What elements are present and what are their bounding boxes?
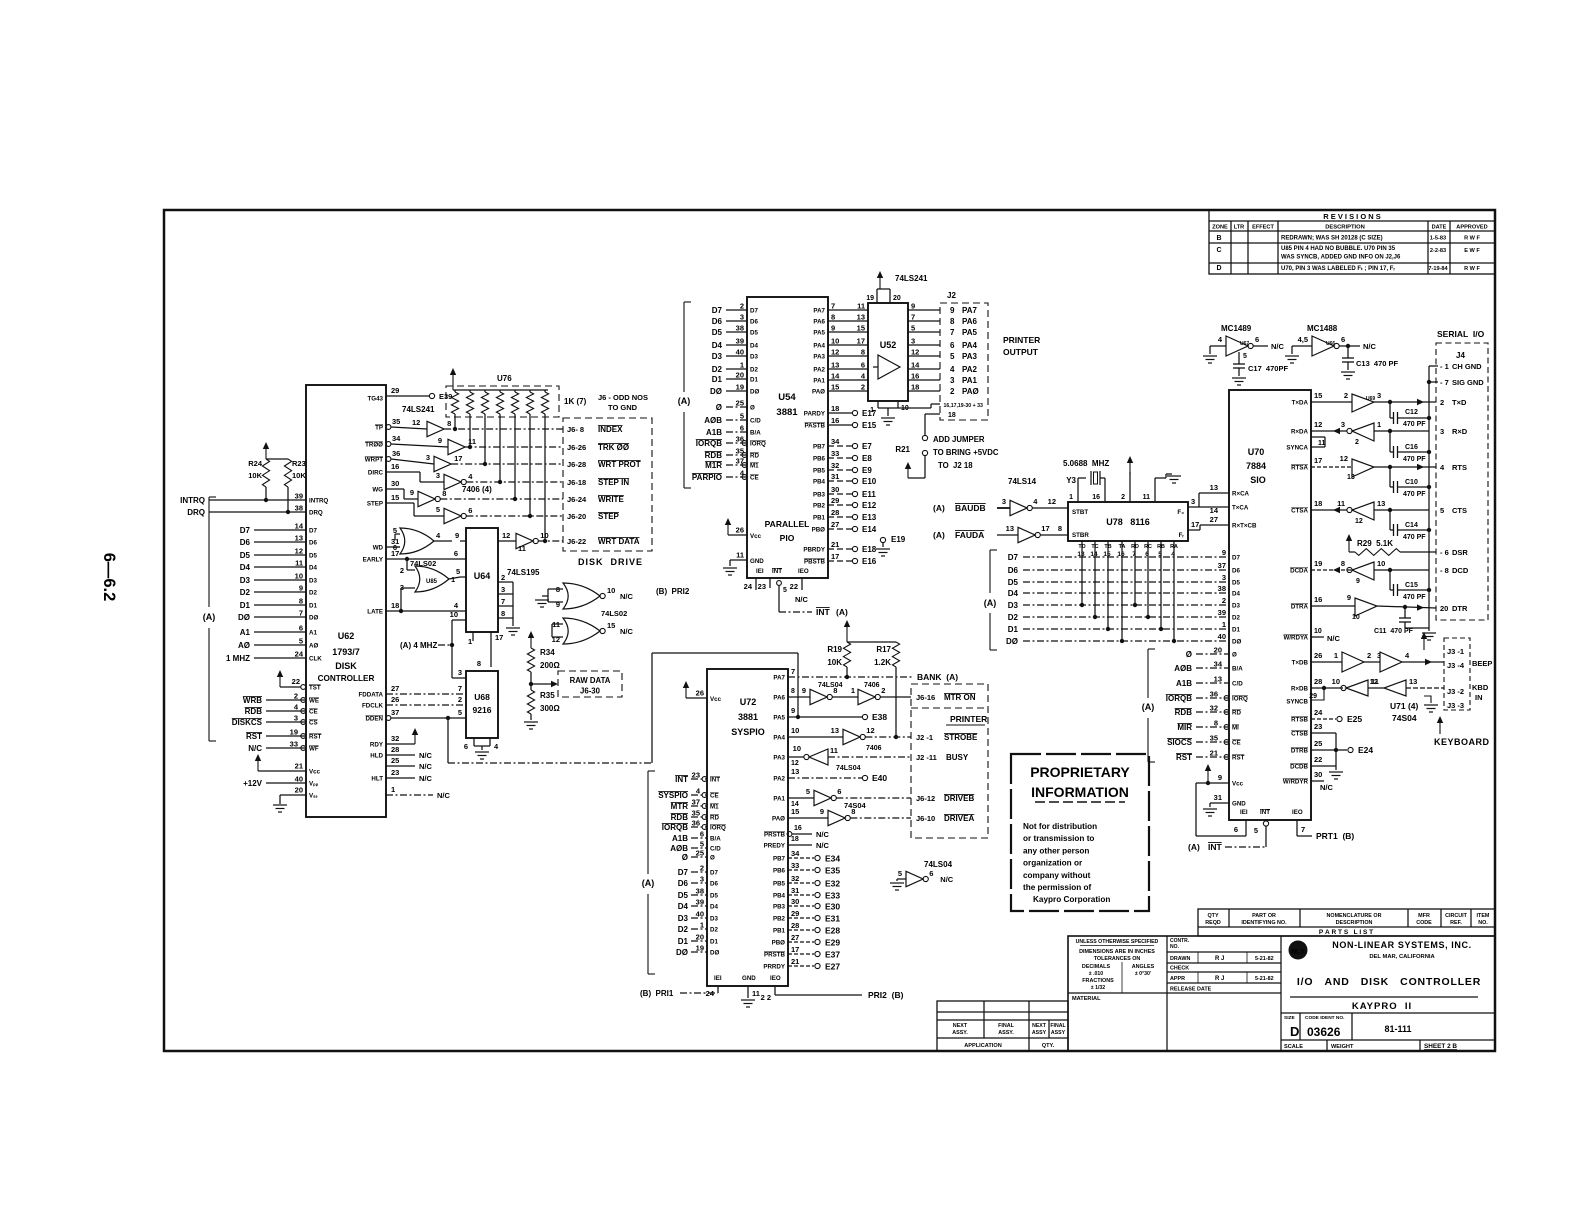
svg-text:14: 14: [295, 522, 304, 531]
svg-text:N/C: N/C: [1271, 342, 1285, 351]
svg-text:2: 2: [1121, 494, 1125, 501]
svg-text:18: 18: [948, 412, 956, 419]
svg-text:38: 38: [736, 324, 744, 333]
svg-text:DISK DRIVE: DISK DRIVE: [578, 557, 643, 567]
svg-text:13: 13: [1409, 677, 1417, 686]
svg-text:INT: INT: [1260, 809, 1270, 816]
svg-text:470 PF: 470 PF: [1403, 534, 1426, 541]
svg-text:PARALLEL: PARALLEL: [765, 519, 810, 529]
svg-text:E40: E40: [872, 773, 887, 783]
svg-text:17: 17: [391, 549, 399, 558]
svg-text:B/A: B/A: [750, 430, 761, 437]
svg-text:W/RDYR: W/RDYR: [1283, 779, 1309, 786]
svg-text:12: 12: [552, 635, 560, 644]
svg-text:N/C: N/C: [1363, 342, 1377, 351]
svg-text:26: 26: [736, 526, 744, 535]
svg-text:10: 10: [793, 744, 801, 753]
svg-text:ZONE: ZONE: [1212, 225, 1228, 231]
svg-text:PB7: PB7: [813, 444, 826, 451]
svg-text:KAYPRO II: KAYPRO II: [1352, 1001, 1412, 1012]
svg-text:DISK: DISK: [335, 661, 357, 671]
svg-text:any other person: any other person: [1023, 846, 1089, 855]
svg-text:T×DB: T×DB: [1292, 660, 1309, 667]
svg-text:FAUDA: FAUDA: [955, 530, 984, 540]
driver U69a TxDA: [1311, 401, 1352, 403]
svg-text:TO J2 18: TO J2 18: [938, 461, 973, 470]
svg-text:DDEN: DDEN: [365, 716, 383, 723]
svg-text:R W F: R W F: [1464, 266, 1480, 272]
U72 Vcc pin 26: [686, 697, 707, 699]
svg-text:PBØ: PBØ: [772, 940, 786, 947]
J3 ground strap: [1424, 696, 1431, 703]
svg-text:D4: D4: [712, 341, 723, 350]
svg-text:3: 3: [700, 875, 704, 884]
svg-text:PA2: PA2: [962, 365, 978, 374]
svg-text:Vᴄᴄ: Vᴄᴄ: [710, 696, 722, 703]
svg-text:+12V: +12V: [243, 779, 263, 788]
svg-text:E11: E11: [862, 490, 876, 499]
svg-text:20: 20: [1214, 646, 1222, 655]
svg-text:CIRCUIT: CIRCUIT: [1445, 913, 1468, 919]
svg-text:IDENTIFYING NO.: IDENTIFYING NO.: [1241, 920, 1287, 926]
svg-text:organization or: organization or: [1023, 859, 1083, 868]
svg-text:PB4: PB4: [813, 479, 826, 486]
svg-text:RTSB: RTSB: [1291, 717, 1308, 724]
svg-text:R24: R24: [248, 459, 263, 468]
svg-text:MFR: MFR: [1418, 913, 1430, 919]
svg-text:27: 27: [791, 933, 799, 942]
resistor R24 10K: [262, 459, 269, 487]
svg-text:D6: D6: [1008, 566, 1019, 575]
svg-text:29: 29: [831, 496, 839, 505]
svg-text:CE: CE: [750, 475, 759, 482]
svg-text:20: 20: [1440, 604, 1448, 613]
svg-text:AØ: AØ: [238, 641, 250, 650]
svg-text:N/C: N/C: [1327, 634, 1341, 643]
svg-text:A1B: A1B: [1176, 679, 1192, 688]
svg-text:E8: E8: [862, 454, 872, 463]
svg-text:T×CA: T×CA: [1232, 505, 1249, 512]
svg-text:SYNCA: SYNCA: [1286, 445, 1308, 452]
svg-text:5: 5: [740, 412, 744, 421]
svg-text:1-5-83: 1-5-83: [1430, 236, 1446, 242]
svg-text:21: 21: [1210, 749, 1218, 758]
node (A) bracket for SIO data bus: [989, 550, 991, 593]
svg-text:19: 19: [736, 383, 744, 392]
U70 CTSB DTRB DCDB strap: [1311, 732, 1336, 734]
svg-text:35: 35: [1210, 734, 1218, 743]
svg-text:FINAL: FINAL: [1050, 1023, 1066, 1029]
svg-text:NO.: NO.: [1478, 920, 1488, 926]
svg-text:J3 -2: J3 -2: [1447, 687, 1464, 696]
svg-text:(A): (A): [933, 503, 945, 513]
svg-text:32: 32: [1210, 704, 1218, 713]
svg-text:2: 2: [950, 387, 955, 396]
svg-text:3: 3: [1191, 497, 1195, 506]
U52 bottom pins and ground: [877, 401, 879, 408]
svg-text:1793/7: 1793/7: [332, 647, 360, 657]
svg-text:20: 20: [696, 933, 704, 942]
svg-text:MC1489: MC1489: [1221, 324, 1252, 333]
svg-text:PB1: PB1: [813, 515, 826, 522]
resistor R23 10K: [284, 459, 291, 487]
svg-text:37: 37: [391, 708, 399, 717]
svg-text:WE: WE: [309, 698, 319, 705]
svg-text:IEO: IEO: [770, 975, 781, 982]
svg-text:ASSY.: ASSY.: [998, 1030, 1014, 1036]
svg-text:16: 16: [391, 462, 399, 471]
svg-text:D4: D4: [750, 343, 758, 350]
svg-text:R17: R17: [876, 645, 891, 654]
svg-text:J6-12: J6-12: [916, 794, 935, 803]
svg-text:(A): (A): [203, 612, 216, 622]
svg-text:J4: J4: [1456, 351, 1465, 360]
receiver pair RxDB from KBD: [1311, 687, 1343, 689]
U70 W/RDYA N/C: [1311, 636, 1324, 638]
svg-text:18: 18: [791, 836, 799, 843]
svg-text:RDB: RDB: [245, 707, 263, 716]
svg-text:D5: D5: [1008, 578, 1019, 587]
svg-text:SYNCB: SYNCB: [1286, 699, 1308, 706]
svg-text:Ø: Ø: [710, 855, 715, 862]
svg-text:14: 14: [911, 361, 920, 370]
svg-text:E16: E16: [862, 557, 877, 566]
driver pair TxDB to BEEP: [1311, 661, 1342, 663]
svg-text:N/C: N/C: [419, 762, 433, 771]
svg-text:3: 3: [426, 453, 430, 462]
svg-text:15: 15: [1314, 391, 1322, 400]
svg-text:- 6: - 6: [1440, 548, 1449, 557]
ground for U85 spare inputs: [542, 595, 548, 597]
svg-text:U70, PIN 3 WAS LABELED Fₜ ; PI: U70, PIN 3 WAS LABELED Fₜ ; PIN 17, Fᵣ: [1281, 266, 1395, 272]
svg-text:10K: 10K: [827, 658, 842, 667]
svg-text:30: 30: [391, 479, 399, 488]
svg-text:6: 6: [929, 869, 933, 878]
svg-text:PBRDY: PBRDY: [803, 547, 826, 554]
svg-text:SIZE: SIZE: [1284, 1015, 1295, 1021]
buffer U63b TR00/TRK00: [386, 442, 391, 447]
svg-text:PRI2 (B): PRI2 (B): [868, 990, 904, 1000]
svg-text:SIO: SIO: [1250, 475, 1266, 485]
svg-text:CS: CS: [309, 720, 318, 727]
svg-text:FRACTIONS: FRACTIONS: [1082, 978, 1114, 984]
svg-text:IORQ: IORQ: [710, 825, 726, 832]
svg-text:26: 26: [1314, 651, 1322, 660]
svg-text:RDY: RDY: [370, 742, 384, 749]
svg-text:26: 26: [391, 695, 399, 704]
svg-text:PA2: PA2: [773, 776, 785, 783]
or-gate U85a WD: [386, 546, 400, 548]
svg-text:22: 22: [790, 582, 798, 591]
svg-text:- 1: - 1: [1440, 362, 1449, 371]
printer connector dashed box: [911, 684, 988, 838]
svg-text:21: 21: [791, 957, 799, 966]
svg-text:U85 PIN 4 HAD NO BUBBLE. U70 P: U85 PIN 4 HAD NO BUBBLE. U70 PIN 35: [1281, 246, 1396, 252]
svg-text:13: 13: [857, 313, 865, 322]
svg-text:14: 14: [831, 372, 840, 381]
svg-text:SIG GND: SIG GND: [1452, 378, 1484, 387]
svg-text:12: 12: [866, 726, 874, 735]
svg-text:E29: E29: [825, 938, 840, 948]
svg-text:J3 -1: J3 -1: [1447, 647, 1464, 656]
svg-text:CONTROLLER: CONTROLLER: [318, 674, 375, 683]
U72 PA0 inverter to DRIVEA: [788, 817, 828, 819]
svg-text:D: D: [1216, 265, 1221, 272]
svg-text:Ø: Ø: [750, 405, 755, 412]
svg-text:INTRQ: INTRQ: [309, 498, 328, 505]
svg-text:STEP IN: STEP IN: [598, 478, 629, 487]
svg-text:TO BRING +5VDC: TO BRING +5VDC: [933, 448, 999, 457]
svg-text:D6: D6: [1232, 568, 1240, 575]
svg-text:NO.: NO.: [1170, 944, 1180, 950]
svg-text:7: 7: [458, 684, 462, 693]
svg-text:D6: D6: [678, 879, 689, 888]
svg-text:9: 9: [1218, 773, 1222, 782]
serial connector J4 dashed box: [1436, 343, 1488, 620]
svg-text:3881: 3881: [738, 712, 758, 722]
svg-text:9: 9: [438, 436, 442, 445]
svg-text:1: 1: [1334, 651, 1338, 660]
svg-text:6: 6: [700, 830, 704, 839]
U76 supply arrow: [452, 371, 454, 390]
receiver U69d CTSA: [1311, 509, 1347, 511]
U70 RTSB to E25: [1311, 718, 1336, 720]
svg-text:5: 5: [299, 637, 303, 646]
svg-text:IN: IN: [1475, 693, 1483, 702]
svg-text:PRSTB: PRSTB: [764, 832, 786, 839]
svg-text:31: 31: [791, 886, 799, 895]
svg-text:18: 18: [1314, 499, 1322, 508]
svg-text:DRQ: DRQ: [187, 508, 205, 517]
svg-text:TO GND: TO GND: [608, 403, 638, 412]
svg-text:PRT1 (B): PRT1 (B): [1316, 831, 1354, 841]
svg-text:3: 3: [1440, 427, 1444, 436]
svg-text:APPR: APPR: [1170, 976, 1185, 982]
svg-text:J2 -11: J2 -11: [916, 753, 937, 762]
svg-text:Y3: Y3: [1066, 476, 1076, 485]
svg-text:(A): (A): [1142, 702, 1155, 712]
svg-text:12: 12: [1048, 497, 1056, 506]
svg-text:D3: D3: [750, 354, 758, 361]
svg-text:74S04: 74S04: [1392, 713, 1417, 723]
IC U68 9216 data separator: [466, 671, 498, 738]
svg-text:74LS04: 74LS04: [924, 860, 953, 869]
svg-text:1: 1: [870, 407, 874, 414]
svg-text:CE: CE: [710, 793, 719, 800]
buffer U63a TP/INDEX: [386, 425, 391, 430]
svg-text:37: 37: [1218, 561, 1226, 570]
wire SIG GND to rail: [1429, 381, 1438, 383]
printer output connector J2 dashed box: [940, 303, 988, 420]
svg-text:(A): (A): [642, 878, 655, 888]
svg-text:36: 36: [392, 449, 400, 458]
inverter U61d WRT DATA: [516, 533, 533, 548]
svg-text:U62: U62: [338, 631, 355, 641]
U78 pin 2 supply arrow: [1129, 472, 1131, 502]
svg-text:STEP: STEP: [367, 501, 383, 508]
svg-text:NOMENCLATURE OR: NOMENCLATURE OR: [1326, 913, 1381, 919]
svg-text:14: 14: [1210, 506, 1219, 515]
svg-text:29: 29: [1309, 693, 1317, 700]
IC U62 1793/7 disk controller: [306, 385, 386, 817]
title block: [1068, 936, 1495, 1051]
receiver U69b RxDA: [1311, 430, 1347, 432]
svg-text:D3: D3: [678, 914, 689, 923]
svg-text:PB3: PB3: [813, 492, 826, 499]
svg-text:TG43: TG43: [368, 396, 384, 403]
svg-text:5: 5: [1243, 353, 1247, 360]
svg-text:21: 21: [831, 540, 839, 549]
svg-text:KBD: KBD: [1472, 683, 1489, 692]
svg-text:J6- 8: J6- 8: [567, 425, 584, 434]
svg-text:7: 7: [299, 609, 303, 618]
svg-text:IORQB: IORQB: [1166, 694, 1192, 703]
wire R24 to INTRQ net: [265, 487, 267, 500]
svg-text:C14: C14: [1405, 522, 1418, 529]
svg-text:U64: U64: [474, 571, 491, 581]
svg-text:PB5: PB5: [813, 468, 826, 475]
resistor R34 200 ohm: [530, 634, 532, 648]
svg-text:3881: 3881: [776, 407, 798, 418]
svg-text:TOLERANCES ON: TOLERANCES ON: [1094, 956, 1141, 962]
svg-text:3: 3: [740, 313, 744, 322]
svg-text:74LS14: 74LS14: [1008, 477, 1037, 486]
svg-text:BUSY: BUSY: [946, 753, 969, 762]
svg-text:10K: 10K: [248, 471, 262, 480]
svg-text:(A): (A): [984, 598, 997, 608]
svg-text:PA7: PA7: [962, 306, 978, 315]
svg-text:PAØ: PAØ: [962, 387, 979, 396]
svg-text:CHECK: CHECK: [1170, 966, 1189, 972]
svg-text:28: 28: [391, 745, 399, 754]
svg-text:27: 27: [831, 520, 839, 529]
or-gate U85b EARLY/LATE: [415, 566, 449, 592]
svg-text:38: 38: [696, 887, 704, 896]
svg-text:APPLICATION: APPLICATION: [964, 1043, 1002, 1049]
svg-text:11: 11: [736, 551, 744, 560]
svg-text:PA5: PA5: [773, 715, 785, 722]
svg-text:2: 2: [1222, 596, 1226, 605]
svg-text:12: 12: [502, 531, 510, 540]
svg-text:HLD: HLD: [370, 753, 383, 760]
svg-text:36: 36: [1210, 690, 1218, 699]
svg-text:20: 20: [893, 295, 901, 302]
svg-text:± 0°30': ± 0°30': [1135, 971, 1151, 977]
svg-text:TRK ØØ: TRK ØØ: [598, 443, 629, 452]
svg-text:3: 3: [294, 714, 298, 723]
svg-text:N/C: N/C: [419, 774, 433, 783]
svg-text:5-21-82: 5-21-82: [1255, 956, 1274, 962]
svg-text:D2: D2: [309, 590, 317, 597]
svg-text:J6-16: J6-16: [916, 693, 935, 702]
svg-text:30: 30: [1314, 770, 1322, 779]
U64 right side pins to ground: [498, 581, 513, 583]
svg-text:5: 5: [911, 324, 915, 333]
svg-text:PROPRIETARY: PROPRIETARY: [1030, 764, 1130, 780]
svg-text:E18: E18: [862, 545, 877, 554]
svg-text:5.0688 MHZ: 5.0688 MHZ: [1063, 459, 1109, 468]
svg-text:10: 10: [450, 610, 458, 619]
svg-text:DØ: DØ: [1006, 637, 1018, 646]
svg-text:13: 13: [1347, 474, 1355, 481]
svg-text:33: 33: [791, 861, 799, 870]
U54 PA outputs to U52: [828, 309, 868, 311]
svg-text:DØ: DØ: [676, 948, 688, 957]
svg-text:PA3: PA3: [962, 352, 978, 361]
svg-text:INT: INT: [710, 777, 720, 784]
svg-text:A1: A1: [309, 630, 317, 637]
svg-text:CODE: CODE: [1416, 920, 1432, 926]
svg-text:25: 25: [1314, 739, 1322, 748]
svg-text:WRITE: WRITE: [598, 495, 624, 504]
svg-text:C: C: [1216, 247, 1221, 254]
svg-text:27: 27: [1210, 515, 1218, 524]
Vss pin 20 ground: [280, 794, 306, 796]
svg-text:15: 15: [391, 493, 399, 502]
svg-text:DATE: DATE: [1432, 225, 1447, 231]
svg-text:KEYBOARD: KEYBOARD: [1434, 737, 1490, 747]
svg-text:C17 470PF: C17 470PF: [1248, 364, 1288, 373]
svg-text:STEP: STEP: [598, 512, 620, 521]
svg-text:(A): (A): [1188, 842, 1200, 852]
svg-text:8: 8: [831, 313, 835, 322]
svg-text:D5: D5: [309, 553, 317, 560]
svg-text:40: 40: [1218, 632, 1226, 641]
svg-text:T×D: T×D: [1452, 398, 1467, 407]
svg-text:IEI: IEI: [1240, 809, 1248, 816]
title block sign-off column: [1167, 951, 1281, 953]
svg-text:R34: R34: [540, 648, 555, 657]
svg-text:CODE IDENT NO.: CODE IDENT NO.: [1305, 1015, 1344, 1021]
svg-text:2: 2: [1367, 651, 1371, 660]
svg-text:9: 9: [1347, 593, 1351, 602]
svg-text:6: 6: [950, 341, 955, 350]
svg-text:U68: U68: [474, 692, 490, 702]
svg-text:R×T×CB: R×T×CB: [1232, 523, 1257, 530]
U68 bottom pins and ground: [473, 738, 475, 746]
svg-text:5: 5: [950, 352, 955, 361]
svg-text:D1: D1: [1008, 625, 1019, 634]
svg-text:D6: D6: [240, 538, 251, 547]
svg-text:RDB: RDB: [671, 813, 689, 822]
svg-text:N/C: N/C: [419, 751, 433, 760]
svg-text:E31: E31: [825, 914, 840, 924]
svg-text:11: 11: [857, 302, 865, 311]
svg-text:U76: U76: [497, 374, 512, 383]
svg-text:8: 8: [477, 659, 481, 668]
svg-text:16,17,19-30 + 33: 16,17,19-30 + 33: [944, 403, 983, 409]
svg-text:D5: D5: [240, 551, 251, 560]
svg-text:3: 3: [1377, 391, 1381, 400]
svg-text:P A R T S L I S T: P A R T S L I S T: [1319, 929, 1373, 936]
svg-text:3: 3: [458, 668, 462, 677]
svg-text:28: 28: [831, 508, 839, 517]
node (A) bracket for SIO control: [1147, 649, 1149, 698]
svg-text:SHEET 2 B: SHEET 2 B: [1424, 1043, 1457, 1050]
node (A) bracket left of U72: [647, 771, 649, 874]
svg-text:D3: D3: [240, 576, 251, 585]
keyboard connector J3 dashed box: [1444, 638, 1470, 710]
svg-text:FDCLK: FDCLK: [362, 703, 383, 710]
U72 PA1 inverter to DRIVEB: [788, 797, 814, 799]
svg-text:9: 9: [455, 531, 459, 540]
resistor R19 10K: [843, 642, 850, 667]
svg-text:74LS02: 74LS02: [601, 609, 627, 618]
svg-text:R J: R J: [1215, 976, 1224, 982]
svg-text:1: 1: [451, 575, 455, 584]
svg-text:39: 39: [736, 337, 744, 346]
svg-text:C/D: C/D: [1232, 681, 1243, 688]
